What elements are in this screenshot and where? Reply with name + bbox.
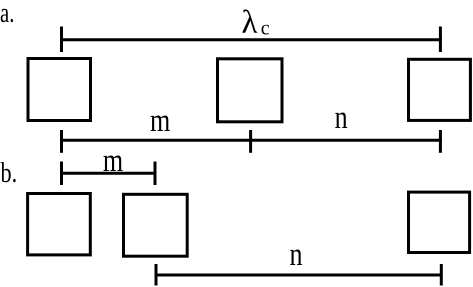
svg-text:m: m — [103, 143, 123, 179]
svg-text:n: n — [289, 237, 302, 273]
dimension line m n (panel a bottom) — [60, 130, 442, 153]
svg-text:m: m — [150, 103, 170, 139]
box b3 (panel b right square) — [409, 192, 470, 252]
dimension line lambda_c (panel a top) — [60, 27, 442, 53]
dimension line n (panel b bottom) — [155, 264, 443, 286]
svg-text:λ: λ — [242, 4, 258, 40]
svg-text:c: c — [261, 17, 270, 39]
svg-text:b.: b. — [1, 156, 18, 189]
svg-text:a.: a. — [0, 0, 14, 29]
box a3 (panel a right square) — [409, 59, 471, 120]
dimension line m (panel b) — [60, 162, 157, 186]
svg-text:n: n — [335, 100, 348, 136]
box b1 (panel b left square) — [28, 194, 91, 255]
box a2 (panel a middle square) — [218, 59, 283, 122]
box a1 (panel a left square) — [28, 59, 91, 121]
box b2 (panel b middle square) — [124, 194, 188, 256]
